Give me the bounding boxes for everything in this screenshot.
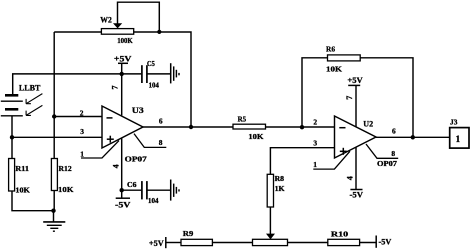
wire U3 pin3 input [12,136,102,138]
ground [43,222,65,231]
svg-text:R11: R11 [15,164,29,173]
resistor R10 [328,239,360,245]
svg-text:-5V: -5V [379,238,392,247]
resistor R12 [51,159,57,191]
svg-text:10K: 10K [326,65,342,74]
svg-text:-5V: -5V [350,191,364,200]
connector J3 [450,128,469,149]
svg-text:C5: C5 [147,61,155,68]
+5V supply U3 [118,63,128,74]
node junction R5/R6 [300,125,304,129]
wire R8 to wiper arrow [269,207,271,234]
wiper arrow of W2 [113,23,122,28]
+5V supply U2 [348,85,360,126]
wire R12 column from rail down [53,32,55,159]
wire potentiometer to R10 [288,242,328,244]
minus sign U2 [339,127,345,129]
node junction pin4/C6/-5V [120,188,124,192]
light arrow 1 into LLBT [26,94,42,104]
svg-text:6: 6 [159,116,163,125]
wire R5 to U2 pin2 [266,126,335,128]
wire photocell to R11 [11,116,13,158]
wiper arrow into bottom potentiometer [266,234,275,240]
svg-text:R6: R6 [326,44,335,53]
svg-text:U2: U2 [363,119,373,128]
pin 8 stub U2 [366,144,398,158]
wire U3 output to R5 [143,126,233,128]
resistor R6 [328,55,361,61]
svg-text:10K: 10K [248,132,263,141]
pin 8 stub U3 [134,134,166,148]
resistor R9 [181,239,212,245]
light arrow 2 into LLBT [26,105,42,115]
wire feedback rail from W2 to U3 output [54,32,191,127]
svg-text:1: 1 [80,149,84,158]
svg-text:1: 1 [313,160,317,169]
-5V supply U2 [350,189,362,191]
wire R11/R12 to ground [12,191,54,222]
ground (sideways) at C5 [171,63,179,83]
svg-text:8: 8 [159,138,163,147]
svg-text:10K: 10K [58,185,74,194]
svg-text:R10: R10 [331,230,349,239]
svg-text:10K: 10K [15,185,30,194]
wire R9 to potentiometer [212,242,252,244]
-5V supply U3 [116,197,130,199]
wire pin4 to C6 [122,189,142,191]
ground (sideways) at C6 [171,180,179,201]
pin 1 stub U3 [81,141,119,158]
wire R6 feedback loop [302,58,413,138]
svg-text:4: 4 [111,164,120,168]
wire W2 wiper loop [118,2,160,31]
op-amp U2 [335,116,377,158]
-5V supply bottom rail [375,236,377,248]
wire C5 to ground [147,73,170,75]
capacitor C5 [142,65,147,83]
potentiometer bottom [253,239,288,245]
plus sign U2 [340,148,347,155]
resistor R8 [267,174,273,207]
svg-text:R9: R9 [183,229,194,238]
svg-text:7: 7 [111,86,120,90]
svg-text:2: 2 [80,108,84,117]
svg-text:104: 104 [148,198,159,205]
svg-text:+5V: +5V [149,239,164,248]
resistor R5 [233,124,266,129]
wire U3 pin2 input [54,116,102,118]
wire C6 to ground [147,189,170,191]
minus sign U3 [107,117,113,119]
photocell LLBT [1,95,23,116]
svg-text:1: 1 [456,134,461,144]
node junction pin3/R11 [10,135,14,139]
wire U2 pin3 to R8 [270,148,334,175]
pin 1 stub U2 [313,151,350,169]
svg-text:3: 3 [313,138,317,147]
op-amp U3 [102,106,143,148]
svg-text:R12: R12 [59,164,73,173]
svg-text:R8: R8 [275,176,285,183]
potentiometer W2 [101,29,133,35]
svg-text:104: 104 [149,83,160,90]
svg-text:+5V: +5V [114,55,132,64]
pin 4 wire U2 [355,147,357,189]
pin 4 wire U3 [121,138,123,198]
svg-text:-5V: -5V [115,200,131,209]
svg-text:3: 3 [80,127,84,136]
svg-text:+5V: +5V [347,76,363,85]
resistor R11 [9,159,15,192]
pin 7 wire U3 [121,74,123,116]
svg-text:W2: W2 [100,16,112,25]
svg-text:J3: J3 [450,118,458,127]
wire +5V rail to photocell and C5 [13,74,142,95]
+5V supply bottom rail [166,237,181,248]
plus sign U3 [107,136,114,143]
svg-text:6: 6 [392,127,396,136]
svg-text:OP07: OP07 [125,156,148,164]
svg-text:7: 7 [345,96,354,100]
node junction R6/output [411,135,415,139]
svg-text:R5: R5 [238,115,247,124]
svg-text:8: 8 [391,149,395,158]
wire R10 to -5V [360,242,377,244]
node junction W2 right [157,30,161,34]
svg-text:U3: U3 [132,106,144,115]
svg-text:100K: 100K [117,36,133,45]
svg-text:LLBT: LLBT [19,84,41,93]
svg-text:4: 4 [346,176,355,180]
capacitor C6 [142,181,147,199]
node junction +5V/C5/pin7 [120,72,124,76]
svg-text:OP07: OP07 [377,160,398,168]
node junction U3 output/feedback [189,125,193,129]
svg-text:1K: 1K [275,186,286,193]
svg-text:2: 2 [313,118,317,127]
wire U2 output to J3 [376,136,450,138]
node junction pin2/R12 [52,114,56,118]
svg-text:C6: C6 [127,182,137,189]
node junction ground [51,209,55,213]
